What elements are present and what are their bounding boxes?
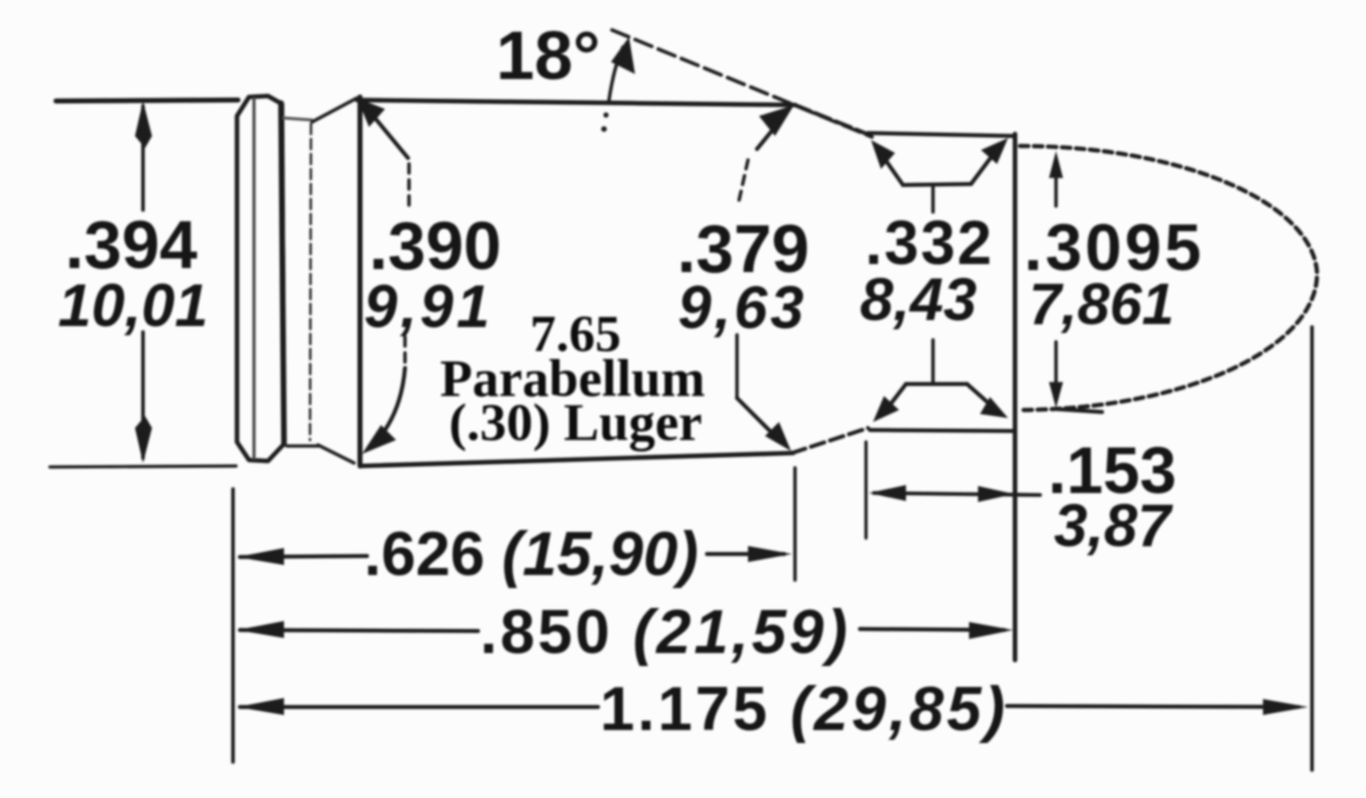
svg-text:(.30) Luger: (.30) Luger bbox=[449, 394, 702, 452]
dot 18deg leader bbox=[603, 112, 608, 117]
dim .850 line left bbox=[240, 630, 478, 631]
arrow .850 right bbox=[969, 622, 1013, 639]
arrow .379 top bbox=[759, 105, 794, 136]
pointer .332 top stem bbox=[931, 186, 934, 212]
case bottom line bbox=[360, 453, 793, 466]
svg-text:8,43: 8,43 bbox=[860, 266, 977, 333]
arrow 18deg bbox=[611, 37, 635, 74]
ext line .153 left bbox=[864, 442, 867, 538]
arrow .3095 up bbox=[1049, 151, 1063, 178]
leader .390 bottom dashes bbox=[403, 337, 406, 365]
arrow .3095 down bbox=[1049, 382, 1063, 408]
neck bottom line bbox=[870, 430, 1012, 431]
groove top edge bbox=[284, 118, 312, 120]
pointer .332 bottom right slant bbox=[967, 384, 994, 408]
leader .390 bottom shaft bbox=[385, 368, 405, 430]
arrow .626 left bbox=[237, 548, 284, 565]
svg-text:.626 (15,90): .626 (15,90) bbox=[364, 520, 698, 589]
ext line 1.175 left bbox=[231, 489, 235, 762]
arrow .394 down bbox=[135, 416, 152, 463]
rim outline bbox=[237, 96, 284, 461]
rim right edge bbox=[281, 103, 284, 444]
dim .394 line lower bbox=[141, 332, 145, 458]
arrow .153 left bbox=[869, 485, 906, 501]
ext line 1.175 right bbox=[1310, 327, 1314, 770]
top extension line left bbox=[56, 100, 238, 101]
svg-text:7,861: 7,861 bbox=[1029, 272, 1174, 337]
arrow 1.175 left bbox=[237, 698, 284, 715]
arrow 1.175 right bbox=[1263, 699, 1308, 715]
bevel top bbox=[312, 98, 357, 122]
leader .379 bottom line bbox=[735, 335, 738, 398]
case mouth extension line bbox=[1013, 134, 1018, 660]
18 degree dashed line bbox=[612, 30, 872, 137]
svg-text:9,63: 9,63 bbox=[678, 274, 807, 341]
svg-text:18°: 18° bbox=[496, 17, 600, 94]
arrow .332 bottom-right bbox=[980, 397, 1008, 418]
arrow .626 right bbox=[748, 546, 792, 562]
shoulder bottom bbox=[792, 428, 868, 453]
svg-text:10,01: 10,01 bbox=[58, 272, 208, 339]
dim .3095 upper line bbox=[1054, 164, 1057, 206]
pointer .332 bottom bar bbox=[906, 382, 967, 386]
18 degree leader arc bbox=[609, 47, 623, 100]
case head edge line bbox=[358, 97, 363, 466]
svg-text:9,91: 9,91 bbox=[364, 273, 493, 340]
dim .3095 lower line bbox=[1054, 342, 1057, 396]
dim 1.175 line right bbox=[1007, 706, 1298, 707]
leader .390 top dashes bbox=[407, 164, 410, 210]
pointer .332 top bar bbox=[903, 184, 971, 185]
pointer .332 top right slant bbox=[971, 152, 995, 184]
neck top line bbox=[868, 133, 1014, 136]
pointer .332 bottom left slant bbox=[886, 384, 906, 410]
arrow .850 left bbox=[237, 621, 284, 638]
pointer .332 top left slant bbox=[882, 155, 903, 185]
shoulder top bbox=[795, 105, 872, 136]
svg-text:.850 (21,59): .850 (21,59) bbox=[480, 598, 850, 667]
arrow .332 bottom-left bbox=[873, 396, 899, 422]
arrow .394 up bbox=[135, 101, 152, 148]
bottom extension line left bbox=[50, 466, 236, 467]
svg-text:1.175 (29,85): 1.175 (29,85) bbox=[600, 675, 1008, 744]
arrow .153 right bbox=[978, 486, 1014, 502]
leader .379 top dashes bbox=[738, 160, 748, 205]
groove right wall bbox=[310, 124, 311, 440]
case top line bbox=[357, 100, 795, 105]
dim .153 line bbox=[874, 493, 1040, 495]
arrow .332 top-right bbox=[981, 138, 1008, 164]
leader .379 bottom shaft bbox=[737, 398, 775, 436]
bevel bottom bbox=[318, 445, 354, 463]
leader .390 top shaft bbox=[370, 112, 408, 158]
dim .850 line right bbox=[860, 629, 1004, 630]
bullet bottom solid segment bbox=[1056, 409, 1102, 412]
pointer .332 bottom stem bbox=[931, 340, 934, 383]
dim .626 line right bbox=[707, 552, 784, 556]
leader .379 top shaft bbox=[757, 122, 779, 149]
arrow .379 bottom bbox=[765, 422, 791, 451]
rim inner line bbox=[252, 99, 255, 458]
dim .394 line upper bbox=[141, 106, 145, 210]
bullet ogive bbox=[1020, 146, 1317, 410]
arrow .390 bottom bbox=[362, 425, 396, 454]
svg-text:3,87: 3,87 bbox=[1054, 492, 1173, 559]
groove bottom edge bbox=[287, 444, 318, 447]
dim .626 line left bbox=[240, 556, 367, 557]
arrow .390 top bbox=[357, 98, 385, 127]
ext line .626 right bbox=[793, 468, 796, 580]
arrow .332 top-left bbox=[871, 140, 895, 169]
dim 1.175 line left bbox=[240, 705, 598, 709]
